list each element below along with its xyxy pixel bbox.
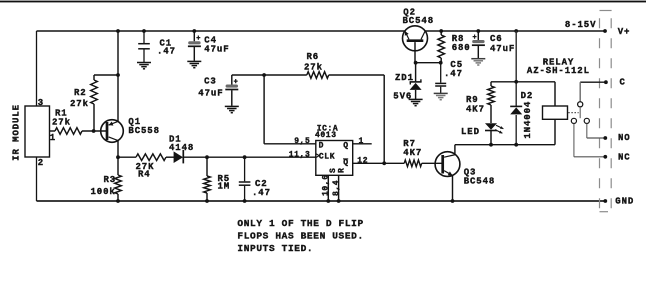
svg-text:ONLY 1 OF THE D FLIP: ONLY 1 OF THE D FLIP <box>237 218 363 229</box>
svg-text:IR MODULE: IR MODULE <box>12 104 22 161</box>
svg-text:+: + <box>196 35 200 43</box>
svg-text:9,5: 9,5 <box>294 137 310 146</box>
svg-text:.47: .47 <box>444 69 463 79</box>
svg-text:Q: Q <box>343 142 348 151</box>
svg-text:47uF: 47uF <box>490 44 515 54</box>
svg-text:BC548: BC548 <box>464 176 496 186</box>
svg-text:4K7: 4K7 <box>403 148 422 158</box>
svg-text:R2: R2 <box>74 88 87 98</box>
svg-text:D2: D2 <box>521 91 534 101</box>
svg-text:C6: C6 <box>490 34 503 44</box>
svg-text:ZD1: ZD1 <box>395 73 414 83</box>
svg-text:12: 12 <box>357 157 368 166</box>
svg-text:47uF: 47uF <box>198 88 223 98</box>
svg-text:+: + <box>473 34 477 42</box>
svg-text:R3: R3 <box>104 175 117 185</box>
svg-text:11,3: 11,3 <box>289 150 311 159</box>
svg-text:27k: 27k <box>304 63 323 73</box>
svg-text:.47: .47 <box>252 188 271 198</box>
svg-text:BC548: BC548 <box>403 16 435 26</box>
svg-text:3: 3 <box>38 98 44 108</box>
svg-text:680: 680 <box>452 43 471 53</box>
svg-text:NC: NC <box>618 153 631 163</box>
svg-text:V+: V+ <box>618 27 631 37</box>
svg-text:4013: 4013 <box>315 131 337 140</box>
svg-text:.47: .47 <box>157 46 176 56</box>
svg-text:CLK: CLK <box>319 152 335 161</box>
svg-text:R4: R4 <box>138 169 151 179</box>
svg-text:8-15V: 8-15V <box>565 20 597 30</box>
svg-text:1: 1 <box>50 133 56 143</box>
svg-text:+: + <box>234 78 238 86</box>
svg-text:C: C <box>620 78 626 88</box>
svg-text:8,4: 8,4 <box>332 180 341 196</box>
svg-text:100k: 100k <box>91 187 116 197</box>
svg-text:47uF: 47uF <box>204 45 229 55</box>
svg-text:1N4004: 1N4004 <box>523 101 533 139</box>
svg-text:R9: R9 <box>466 95 479 105</box>
svg-text:FLOPS HAS BEEN USED.: FLOPS HAS BEEN USED. <box>237 230 363 241</box>
svg-text:R6: R6 <box>307 52 320 62</box>
svg-text:LED: LED <box>461 127 480 137</box>
svg-text:4K7: 4K7 <box>466 105 485 115</box>
svg-text:1M: 1M <box>218 182 231 192</box>
svg-text:4148: 4148 <box>169 143 194 153</box>
svg-text:27k: 27k <box>52 118 71 128</box>
svg-text:AZ-SH-112L: AZ-SH-112L <box>527 66 590 76</box>
svg-text:D: D <box>319 142 324 151</box>
svg-text:C3: C3 <box>204 77 217 87</box>
svg-text:R: R <box>337 168 346 173</box>
svg-text:5V6: 5V6 <box>393 91 412 101</box>
svg-text:BC558: BC558 <box>128 126 160 136</box>
svg-text:10,6: 10,6 <box>321 174 330 196</box>
svg-text:NO: NO <box>618 133 631 143</box>
svg-text:GND: GND <box>615 197 634 207</box>
svg-text:2: 2 <box>38 158 44 168</box>
svg-text:1: 1 <box>359 137 364 146</box>
svg-text:Q: Q <box>343 159 348 168</box>
svg-text:27k: 27k <box>70 99 89 109</box>
svg-text:INPUTS TIED.: INPUTS TIED. <box>237 243 313 254</box>
